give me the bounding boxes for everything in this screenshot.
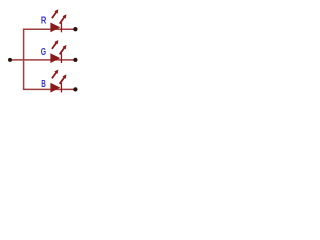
- LED D2 (green): [50, 40, 66, 63]
- wire: row B horizontal: [23, 88, 74, 90]
- svg-text:B: B: [41, 78, 46, 90]
- svg-text:R: R: [41, 15, 47, 27]
- node: row G right terminal dot: [73, 58, 77, 62]
- wire: vertical bus: [23, 29, 25, 89]
- node: row R right terminal dot: [73, 27, 77, 31]
- wire: row G horizontal (from left dot through bus): [11, 59, 74, 61]
- LED D1 (red): [50, 9, 66, 32]
- LED D3 (blue): [50, 70, 66, 93]
- svg-text:G: G: [41, 46, 46, 58]
- wire: row R horizontal: [23, 28, 74, 30]
- node: left terminal dot: [8, 58, 12, 62]
- node: row B right terminal dot: [73, 87, 77, 91]
